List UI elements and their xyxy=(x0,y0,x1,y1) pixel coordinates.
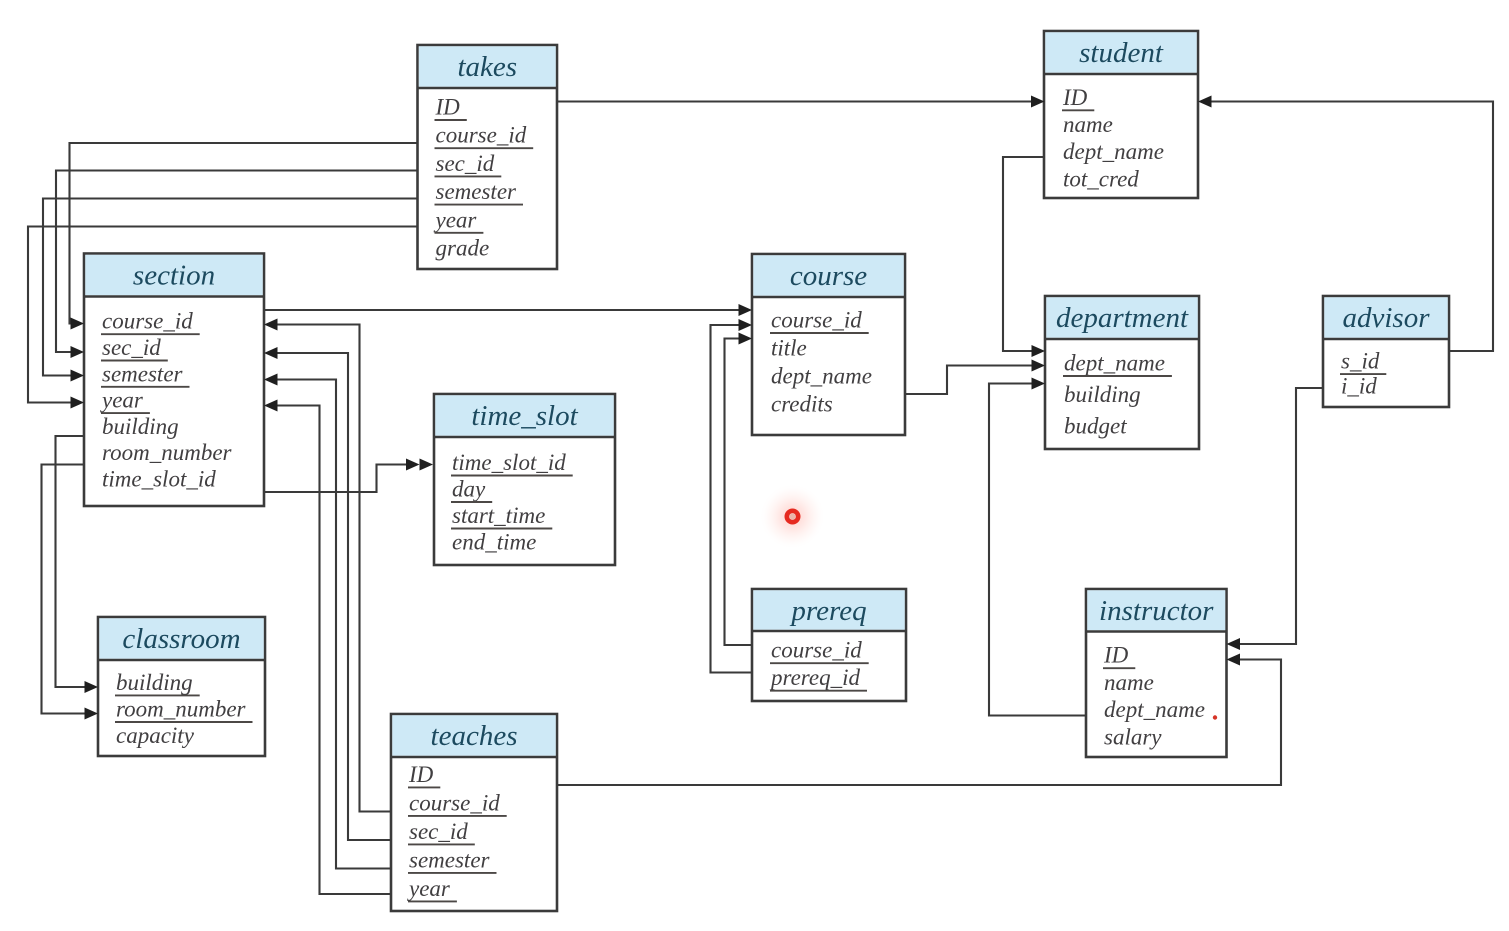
svg-text:instructor: instructor xyxy=(1099,595,1214,627)
svg-text:semester: semester xyxy=(102,361,184,386)
svg-text:i_id: i_id xyxy=(1341,373,1377,398)
table course xyxy=(752,254,905,435)
wire takes.sec_id to section.sec_id xyxy=(56,171,418,359)
svg-text:end_time: end_time xyxy=(452,530,536,555)
svg-text:course_id: course_id xyxy=(409,790,500,815)
svg-text:sec_id: sec_id xyxy=(436,151,495,176)
table teaches xyxy=(391,714,557,911)
svg-text:time_slot_id: time_slot_id xyxy=(452,450,566,475)
svg-text:prereq: prereq xyxy=(789,595,866,627)
table prereq xyxy=(752,589,906,701)
wire takes.year to section.year xyxy=(28,227,418,409)
svg-text:department: department xyxy=(1056,302,1189,334)
svg-text:name: name xyxy=(1104,670,1154,695)
svg-text:day: day xyxy=(452,477,486,502)
svg-text:capacity: capacity xyxy=(116,723,195,748)
svg-text:tot_cred: tot_cred xyxy=(1063,166,1139,191)
svg-text:time_slot_id: time_slot_id xyxy=(102,467,216,492)
svg-text:grade: grade xyxy=(436,236,490,261)
svg-text:semester: semester xyxy=(436,179,518,204)
wire takes.semester to section.semester xyxy=(43,199,418,382)
svg-text:s_id: s_id xyxy=(1341,349,1380,374)
wire prereq.course_id to course.course_id xyxy=(725,333,753,646)
svg-text:salary: salary xyxy=(1104,724,1162,749)
table department xyxy=(1045,296,1199,449)
svg-text:year: year xyxy=(434,207,478,232)
wire instructor.dept_name to department.dept_name xyxy=(989,378,1086,716)
svg-text:ID: ID xyxy=(1103,643,1129,668)
wire teaches.semester to section.semester xyxy=(264,374,391,869)
svg-text:building: building xyxy=(102,414,179,439)
wire takes.ID to student.ID xyxy=(557,96,1045,108)
laser pointer glow xyxy=(0,0,1,1)
wire teaches.course_id to section.course_id xyxy=(264,319,391,812)
svg-text:advisor: advisor xyxy=(1343,302,1431,334)
svg-text:dept_name: dept_name xyxy=(1063,139,1164,164)
table section xyxy=(84,254,264,507)
wire section.building to classroom.building xyxy=(56,436,99,693)
svg-text:course_id: course_id xyxy=(771,638,862,663)
wire teaches.year to section.year xyxy=(264,400,391,895)
wire student.dept_name to department.dept_name xyxy=(1003,157,1045,357)
svg-text:teaches: teaches xyxy=(431,720,518,752)
wire teaches.ID to instructor.ID xyxy=(557,654,1281,786)
wire section.course_id to course.course_id xyxy=(264,304,752,316)
svg-text:course_id: course_id xyxy=(771,308,862,333)
wire section.time_slot_id to time_slot (double arrow) xyxy=(264,459,433,493)
svg-text:credits: credits xyxy=(771,392,833,417)
wire advisor.i_id to instructor.ID xyxy=(1227,388,1324,650)
svg-text:sec_id: sec_id xyxy=(102,335,161,360)
table instructor xyxy=(1086,589,1227,757)
svg-text:ID: ID xyxy=(408,762,434,787)
svg-text:building: building xyxy=(116,670,193,695)
svg-text:semester: semester xyxy=(409,847,491,872)
wire course.dept_name to department.dept_name xyxy=(905,360,1045,395)
svg-text:title: title xyxy=(771,336,807,361)
table time_slot xyxy=(434,394,615,565)
svg-text:section: section xyxy=(133,260,215,292)
svg-text:course_id: course_id xyxy=(102,309,193,334)
svg-text:dept_name: dept_name xyxy=(1064,351,1165,376)
svg-text:dept_name: dept_name xyxy=(1104,697,1205,722)
svg-text:name: name xyxy=(1063,112,1113,137)
wire teaches.sec_id to section.sec_id xyxy=(264,347,391,840)
svg-text:classroom: classroom xyxy=(122,623,240,655)
wire prereq.prereq_id to course.course_id xyxy=(711,319,753,673)
table student xyxy=(1044,31,1198,198)
svg-text:year: year xyxy=(100,388,144,413)
svg-text:course: course xyxy=(790,260,867,292)
svg-text:start_time: start_time xyxy=(452,503,545,528)
svg-text:room_number: room_number xyxy=(116,697,247,722)
svg-text:course_id: course_id xyxy=(436,123,527,148)
wire section.room_number to classroom.room_number xyxy=(42,465,99,720)
svg-text:year: year xyxy=(407,876,451,901)
svg-text:ID: ID xyxy=(435,95,461,120)
red speck near instructor xyxy=(1213,715,1217,719)
svg-text:building: building xyxy=(1064,382,1141,407)
wire advisor.s_id to student.ID xyxy=(1198,96,1493,352)
svg-text:prereq_id: prereq_id xyxy=(769,665,861,690)
svg-text:takes: takes xyxy=(457,51,517,83)
svg-text:student: student xyxy=(1079,37,1164,69)
svg-text:dept_name: dept_name xyxy=(771,364,872,389)
svg-text:sec_id: sec_id xyxy=(409,819,468,844)
svg-text:budget: budget xyxy=(1064,414,1127,439)
wire takes.course_id to section.course_id xyxy=(70,143,418,330)
svg-text:ID: ID xyxy=(1062,85,1088,110)
table takes xyxy=(418,45,558,269)
svg-text:room_number: room_number xyxy=(102,440,233,465)
table advisor xyxy=(1323,296,1449,407)
table classroom xyxy=(98,617,265,756)
svg-text:time_slot: time_slot xyxy=(471,400,578,432)
laser pointer ring xyxy=(787,511,798,522)
